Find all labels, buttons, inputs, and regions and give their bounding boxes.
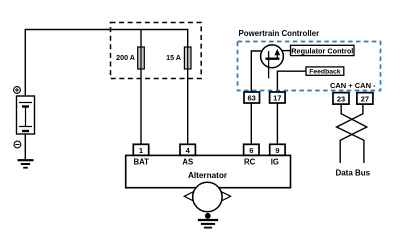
svg-text:200 A: 200 A bbox=[116, 53, 135, 62]
svg-text:17: 17 bbox=[273, 94, 281, 103]
svg-text:Regulator Control: Regulator Control bbox=[291, 46, 353, 55]
svg-text:AS: AS bbox=[182, 158, 193, 167]
svg-text:15 A: 15 A bbox=[166, 53, 181, 62]
svg-text:RC: RC bbox=[244, 158, 256, 167]
svg-text:6: 6 bbox=[249, 146, 253, 155]
svg-text:Powertrain Controller: Powertrain Controller bbox=[239, 29, 320, 38]
svg-text:Feedback: Feedback bbox=[309, 69, 341, 76]
svg-text:27: 27 bbox=[361, 94, 369, 103]
svg-text:63: 63 bbox=[248, 94, 256, 103]
svg-text:23: 23 bbox=[337, 94, 345, 103]
svg-text:CAN + CAN -: CAN + CAN - bbox=[330, 81, 376, 90]
svg-text:9: 9 bbox=[275, 146, 279, 155]
svg-text:Data Bus: Data Bus bbox=[335, 168, 370, 177]
svg-text:1: 1 bbox=[139, 146, 143, 155]
svg-text:IG: IG bbox=[271, 158, 279, 167]
svg-text:BAT: BAT bbox=[134, 158, 150, 167]
svg-text:Alternator: Alternator bbox=[188, 171, 228, 180]
